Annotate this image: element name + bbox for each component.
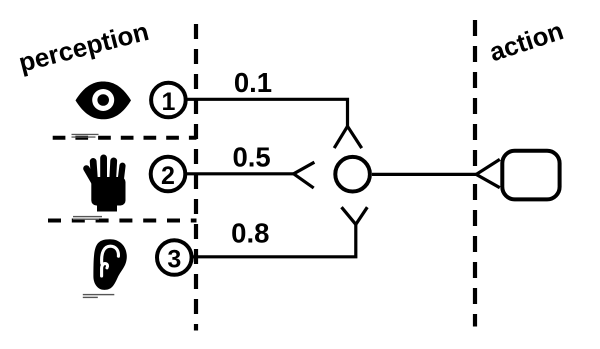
svg-text:0.5: 0.5 xyxy=(232,142,270,173)
svg-text:3: 3 xyxy=(167,246,181,274)
svg-text:0.1: 0.1 xyxy=(234,67,272,98)
svg-text:0.8: 0.8 xyxy=(231,218,269,249)
svg-text:2: 2 xyxy=(161,162,175,190)
svg-text:1: 1 xyxy=(161,88,175,116)
